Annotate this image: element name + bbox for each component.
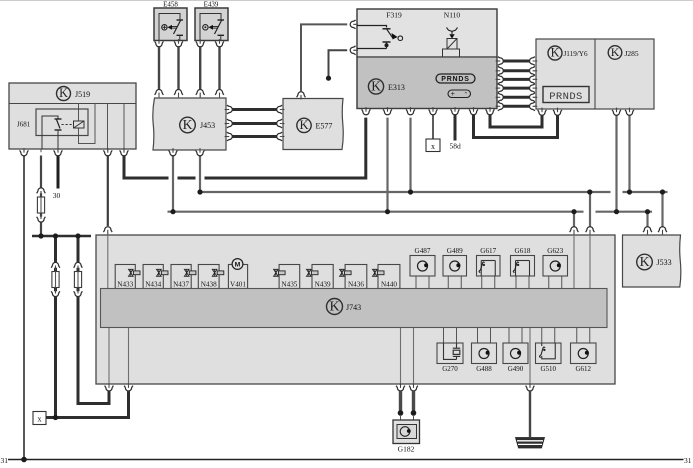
svg-text:30: 30	[53, 191, 61, 200]
svg-text:N433: N433	[117, 280, 133, 288]
svg-text:E313: E313	[388, 83, 405, 92]
svg-text:F319: F319	[386, 11, 402, 20]
svg-text:G487: G487	[415, 247, 431, 255]
svg-text:M: M	[235, 262, 241, 269]
svg-text:G617: G617	[480, 247, 496, 255]
svg-text:G623: G623	[547, 247, 563, 255]
svg-text:G510: G510	[540, 365, 556, 373]
svg-text:K: K	[59, 86, 68, 100]
svg-text:N438: N438	[201, 280, 217, 288]
svg-text:K: K	[611, 45, 620, 59]
svg-text:G618: G618	[515, 247, 531, 255]
svg-text:V401: V401	[230, 280, 246, 288]
svg-text:K: K	[640, 254, 650, 269]
svg-text:N434: N434	[145, 280, 161, 288]
svg-text:PRNDS: PRNDS	[441, 76, 470, 83]
svg-text:J743: J743	[346, 303, 361, 312]
svg-text:G612: G612	[575, 365, 591, 373]
svg-text:PRNDS: PRNDS	[549, 91, 583, 103]
svg-text:J533: J533	[657, 258, 672, 267]
svg-text:K: K	[183, 117, 193, 132]
svg-text:N440: N440	[381, 280, 397, 288]
svg-text:N435: N435	[281, 280, 297, 288]
svg-text:58d: 58d	[450, 142, 462, 151]
svg-text:N110: N110	[444, 11, 461, 20]
svg-text:+: +	[451, 91, 455, 98]
svg-text:J519: J519	[75, 90, 90, 99]
svg-text:J681: J681	[17, 121, 31, 129]
svg-text:E458: E458	[163, 1, 178, 9]
svg-text:G182: G182	[398, 445, 415, 454]
svg-text:E439: E439	[204, 1, 219, 9]
svg-text:E577: E577	[316, 122, 333, 131]
svg-text:N437: N437	[173, 280, 189, 288]
svg-text:N439: N439	[315, 280, 331, 288]
svg-text:G270: G270	[442, 365, 458, 373]
svg-text:G490: G490	[508, 365, 524, 373]
svg-text:-: -	[464, 88, 467, 97]
svg-text:K: K	[329, 300, 339, 315]
svg-text:31: 31	[1, 456, 9, 465]
svg-text:31: 31	[684, 456, 692, 465]
svg-text:x: x	[38, 415, 42, 424]
svg-text:J285: J285	[625, 49, 639, 58]
svg-text:K: K	[371, 78, 381, 93]
svg-text:J119/Y6: J119/Y6	[564, 50, 588, 58]
svg-text:N436: N436	[348, 280, 364, 288]
svg-text:G489: G489	[447, 247, 463, 255]
svg-text:J453: J453	[200, 121, 215, 130]
svg-text:G488: G488	[476, 365, 492, 373]
svg-text:K: K	[299, 118, 308, 132]
svg-text:K: K	[551, 46, 560, 60]
svg-text:x: x	[431, 142, 435, 151]
